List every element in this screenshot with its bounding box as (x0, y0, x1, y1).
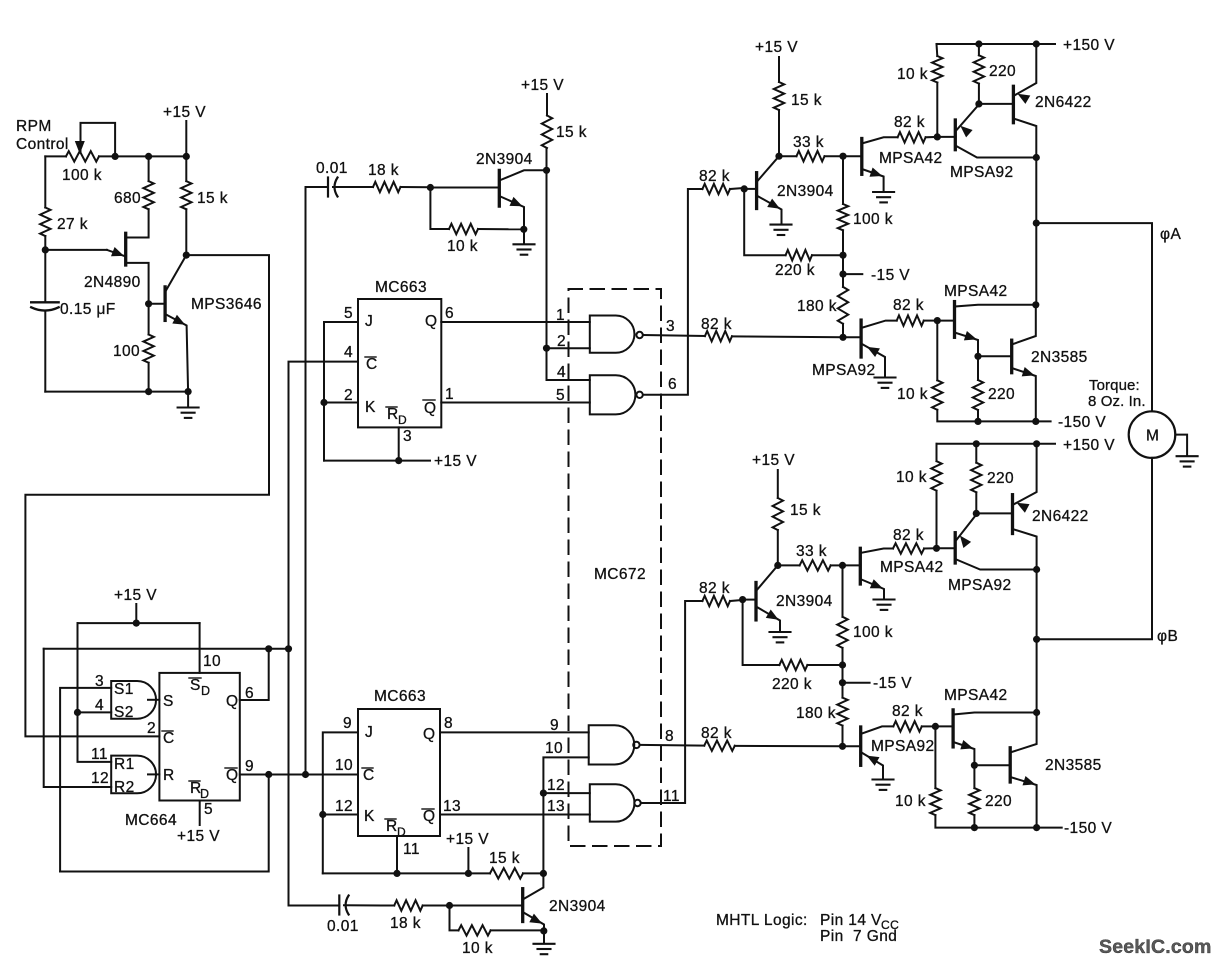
label Torque: 8 Oz. In. (1088, 377, 1146, 410)
wire 220 top (phase A high) (978, 44, 980, 55)
power -15 V (phase A) (871, 267, 910, 284)
label 2N3585 (phase B) (1045, 757, 1102, 774)
svg-text:82 k: 82 k (701, 725, 732, 742)
node dot 2N3904#1 collector (543, 167, 550, 174)
svg-text:K: K (365, 399, 376, 416)
wire 82k to MPSA42 base (phase B) (922, 725, 936, 727)
wire 82k to 2N3904 base (phase A) (730, 188, 744, 189)
wire 10k bottom to -150V rail (phase A) (937, 410, 1050, 422)
svg-text:+15 V: +15 V (521, 77, 564, 94)
svg-text:13: 13 (443, 798, 461, 815)
svg-text:12: 12 (547, 777, 565, 794)
wire 100k top (phase B) (842, 565, 844, 616)
svg-text:D: D (201, 684, 210, 698)
svg-text:-15 V: -15 V (871, 267, 910, 284)
pin 4 label (95, 697, 104, 714)
wire base node to bar (430, 187, 498, 189)
label 2N3585 (phase A) (1031, 349, 1088, 366)
svg-text:10 k: 10 k (447, 238, 478, 255)
svg-text:3: 3 (95, 673, 104, 690)
node dot 220k/100k (phase A) (839, 252, 846, 259)
svg-text:15 k: 15 k (489, 850, 520, 867)
ground (top pulse shaper) (514, 229, 535, 255)
wire -15V tap (phase A) (843, 255, 862, 274)
wire motor to ground (1175, 435, 1187, 456)
node dot MPS3646 collector (183, 252, 190, 259)
label 2N3904 (top) (476, 151, 533, 168)
gate G2 NAND (MC672 pins 4,5 -> 6) (590, 375, 643, 414)
svg-text:2N3904: 2N3904 (476, 151, 533, 168)
label phi-A (1160, 226, 1181, 243)
resistor 220 k (phase A) (786, 250, 812, 260)
pin 1 label (G1) (556, 307, 565, 324)
wire +15V down to S2 and R1 inputs (78, 623, 112, 762)
label J (upper) (365, 313, 373, 330)
svg-text:82 k: 82 k (893, 297, 924, 314)
wire 220 bottom (phase A high) (978, 84, 980, 104)
svg-text:+15 V: +15 V (752, 452, 795, 469)
svg-text:12: 12 (91, 770, 109, 787)
svg-text:MC663: MC663 (374, 688, 426, 705)
svg-text:100 k: 100 k (853, 211, 893, 228)
wire R-bar-D pin3 stub (upper) (398, 427, 400, 460)
resistor 15 k (lower) (490, 868, 523, 878)
wire 100k bottom (phase A) (842, 230, 844, 255)
svg-text:10: 10 (203, 653, 221, 670)
IC U3 MC664 flip-flop box (159, 673, 239, 801)
node dot J-K tie (lower) (319, 811, 326, 818)
svg-text:82 k: 82 k (701, 316, 732, 333)
ground (oscillator) (178, 392, 199, 418)
svg-text:33 k: 33 k (793, 134, 824, 151)
wire 10k bottom to -150V rail (phase B) (935, 815, 1061, 828)
svg-text:220: 220 (989, 63, 1016, 80)
wire oscillator bottom rail (45, 391, 188, 393)
resistor 680 (143, 181, 153, 209)
pin 11 label (91, 746, 108, 763)
resistor 82 k (phase B interstage) (893, 721, 922, 731)
node dot net D cap riser (302, 771, 309, 778)
label 100 (113, 343, 140, 360)
label 220 (phase B low) (985, 793, 1012, 810)
pin 5 / R-bar-D stub (MC664) (200, 801, 213, 826)
wire 10k to emitter node (bottom) (491, 929, 544, 931)
wire MC663#1 Q pin6 to NAND1 input1 (441, 321, 590, 323)
label 2N3904 (phase A) (777, 183, 834, 200)
node dot 680 top (145, 153, 152, 160)
label 100 k (62, 167, 102, 184)
wire 680 bottom to 2N4890 base-2 (126, 209, 149, 237)
svg-text:MPSA42: MPSA42 (879, 150, 943, 167)
wire base node to 100 (148, 304, 150, 335)
label 10 k (top) (447, 238, 478, 255)
wire net D feedback loop to S1 (60, 775, 269, 872)
watermark SeekIC.com (1099, 936, 1212, 958)
svg-text:Q: Q (424, 400, 436, 417)
svg-text:18 k: 18 k (390, 915, 421, 932)
svg-text:SeekIC.com: SeekIC.com (1099, 936, 1212, 958)
node dot J-K tie (upper) (320, 399, 327, 406)
node dot +15V tap (lower) (465, 870, 472, 877)
svg-text:18 k: 18 k (368, 162, 399, 179)
wire G4 output riser (641, 601, 703, 803)
svg-text:10: 10 (545, 740, 563, 757)
svg-text:5: 5 (204, 801, 213, 818)
power +15 V (MC664 R-bar-D) (177, 828, 220, 845)
resistor 33 k (phase B) (800, 560, 831, 570)
svg-text:+15 V: +15 V (755, 39, 798, 56)
wire MPSA42 emitter to 2N3585 base (phase B) (974, 764, 1010, 766)
wire +15V to S-bar-D pin 10 (199, 623, 201, 673)
node dot 220/-150V (phase A) (974, 418, 981, 425)
svg-text:82 k: 82 k (699, 168, 730, 185)
wire +15V rail (lower MC663) (323, 872, 490, 874)
svg-text:100 k: 100 k (853, 624, 893, 641)
label C-bar (MC664) (162, 730, 175, 747)
node dot pot right terminal (112, 153, 119, 160)
pin 6 label (245, 685, 254, 702)
svg-text:φB: φB (1157, 628, 1178, 645)
node dot output/MPSA42 collector (phase B) (1033, 709, 1040, 716)
wire 82k to MPSA92 base (phase B) (735, 745, 842, 747)
wire MC664 Q-bar pin9 to MC663#2 C-bar (net D) (240, 774, 358, 776)
svg-text:5: 5 (556, 387, 565, 404)
power +15 V (phase A) (755, 39, 798, 82)
node dot 33k node (phase B) (774, 562, 781, 569)
svg-text:2N3585: 2N3585 (1045, 757, 1102, 774)
pin 10 label (203, 653, 221, 670)
svg-text:D: D (200, 787, 209, 801)
svg-text:-15 V: -15 V (873, 675, 912, 692)
node dot 100k top (phase A) (839, 153, 846, 160)
wire J pin5 tie (upper) (324, 322, 358, 461)
transistor Q15 MPSA92 (phase B high) (937, 515, 1037, 570)
svg-text:11: 11 (91, 746, 108, 763)
wire oscillator output to MC664 C-bar input (net A) (25, 255, 269, 736)
svg-text:+15 V: +15 V (446, 831, 489, 848)
svg-text:4: 4 (557, 364, 566, 381)
svg-text:MC664: MC664 (125, 812, 177, 829)
ground (MPSA92 phase A) (875, 378, 896, 388)
transistor Q7 MPSA42 (phase A low) (937, 302, 1036, 357)
transistor Q9 MPSA92 (phase A high) (937, 105, 1036, 158)
label MPSA92 (phase B low) (871, 738, 935, 755)
wire +15V rail (upper MC663) (324, 460, 430, 462)
wire 15k to node (phase A) (778, 110, 780, 156)
node dot 2N3585 emitter/-150V (phase B) (1033, 824, 1040, 831)
pin 13 label (G4) (547, 798, 565, 815)
IC U4 MC663 flip-flop box (lower) (358, 709, 440, 836)
svg-text:6: 6 (668, 376, 677, 393)
pin 9 label (G3) (550, 717, 559, 734)
ground (MPSA92 phase B) (873, 780, 894, 790)
node dot net C to C-bar riser (285, 645, 292, 652)
resistor 82 k (G4 out) (702, 596, 730, 606)
svg-text:+15 V: +15 V (163, 104, 206, 121)
node dot net C corner (265, 645, 272, 652)
wire 15k to collector node (546, 148, 548, 170)
svg-text:2N4890: 2N4890 (84, 274, 141, 291)
node dot 33k node (phase A) (775, 153, 782, 160)
svg-text:K: K (364, 808, 375, 825)
node dot MPSA92 emitter node (phase A) (975, 100, 982, 107)
pin 8 label (G3 out) (665, 728, 674, 745)
transistor Q4 2N3904 (bottom pulse shaper) (523, 873, 544, 930)
wire 220k to node (phase B) (807, 664, 842, 666)
wire base to 220k (phase A) (744, 189, 785, 255)
resistor 18 k (bottom) (394, 900, 423, 910)
wire collector node to NAND inputs 10 and 12 (543, 757, 588, 873)
label MC663 (lower) (374, 688, 426, 705)
svg-text:-150 V: -150 V (1064, 820, 1112, 837)
svg-text:220: 220 (985, 793, 1012, 810)
ground (motor) (1177, 456, 1198, 466)
label 15 k (phase A) (791, 92, 822, 109)
label 10 k (phase B low) (895, 793, 926, 810)
node dot phase A output tap (1033, 220, 1040, 227)
node dot 100k top (phase B) (839, 562, 846, 569)
power +15 V (top middle) (521, 77, 564, 116)
transistor Q11 2N3904 (phase B) (743, 565, 780, 631)
svg-text:M: M (1146, 428, 1159, 445)
svg-text:Q: Q (226, 767, 238, 784)
power +15 V (phase B) (752, 452, 795, 498)
svg-text:MC663: MC663 (375, 279, 427, 296)
svg-text:220: 220 (987, 470, 1014, 487)
label K (lower) (364, 808, 375, 825)
wire MC663#2 Q-bar pin13 to NAND4 input13 (440, 814, 590, 816)
svg-text:+15 V: +15 V (434, 453, 477, 470)
svg-text:RPM: RPM (16, 118, 52, 135)
resistor 10 k (phase A high) (932, 56, 942, 83)
node dot 2N3904#2 collector (540, 870, 547, 877)
wire 33k left (phase A) (779, 155, 797, 157)
node dot MPSA42 base (phase B low) (932, 723, 939, 730)
node dot output/MPSA42 collector (phase A) (1032, 301, 1039, 308)
power -150 V (phase B) (1064, 820, 1112, 837)
label 220 k (phase A) (775, 262, 815, 279)
resistor 10 k (top) (449, 224, 478, 234)
wire +15V rail MC664 (78, 622, 200, 624)
svg-text:Q: Q (423, 808, 435, 825)
wire R-bar-D pin11 stub (lower) (396, 836, 398, 873)
pin 4 label (G2) (557, 364, 566, 381)
label 0.01 (top) (316, 160, 348, 177)
svg-text:1: 1 (445, 386, 454, 403)
svg-text:C: C (363, 767, 375, 784)
label 82 k (phase A mid) (894, 114, 925, 131)
svg-text:11: 11 (403, 841, 420, 858)
pin 1 label (upper) (445, 386, 454, 403)
label 33 k (phase B) (796, 543, 827, 560)
svg-text:2N3904: 2N3904 (776, 593, 833, 610)
label 18 k (top) (368, 162, 399, 179)
wire 82k to MPSA92 base (phase A high) (926, 136, 938, 138)
pin 4 label (upper) (344, 344, 353, 361)
node dot phase B output tap (1033, 636, 1040, 643)
wire 220 bottom (phase A low) (977, 410, 979, 421)
wire output column (phase A) (1035, 158, 1037, 305)
wire 220 top (phase A low) (977, 356, 979, 380)
label 10 k (phase B high) (896, 469, 927, 486)
wire MC663#1 Q-bar pin1 to NAND2 input5 (441, 402, 590, 404)
pin 12 label (91, 770, 109, 787)
node dot net D loop (265, 771, 272, 778)
label 2N6422 (phase A) (1035, 94, 1092, 111)
label S (MC664) (163, 693, 174, 710)
pin 6 label (G2 out) (668, 376, 677, 393)
svg-text:5: 5 (344, 305, 353, 322)
wire phase B output to motor (1037, 458, 1152, 639)
wire left rail down to 27k (44, 156, 46, 207)
node dot 220/-150V (phase B) (971, 824, 978, 831)
gate G3 NAND (MC672 pins 9,10 -> 8) (589, 725, 640, 764)
power +150 V (phase B) (1063, 437, 1115, 454)
wire J pin9 tie (lower) (323, 732, 358, 873)
capacitor C1 0.01 (top coupling) (328, 178, 373, 197)
rail +150 V (phase B) (937, 443, 1056, 445)
node dot 27k/cap/emitter (42, 246, 49, 253)
label 680 (114, 190, 141, 207)
svg-text:D: D (398, 413, 407, 427)
node dot bottom rail / emitter (185, 388, 192, 395)
node dot bottom rail / 100 (145, 388, 152, 395)
node dot 2N3904#2 emitter/10k (540, 927, 547, 934)
label 82 k (phase B interstage) (892, 703, 923, 720)
label MPSA92 (phase B high) (948, 577, 1012, 594)
label MC672 (594, 566, 646, 583)
pin 2 label (upper) (344, 387, 353, 404)
wire 180k bottom (phase A) (842, 324, 844, 338)
resistor 15 k (phase B) (773, 498, 783, 530)
label R-bar-D (upper) (386, 406, 407, 427)
svg-text:15 k: 15 k (790, 502, 821, 519)
svg-text:MPSA42: MPSA42 (944, 687, 1008, 704)
svg-text:82 k: 82 k (893, 527, 924, 544)
label 82 k (G3 out) (701, 725, 732, 742)
resistor 18 k (top) (373, 182, 401, 192)
svg-text:220: 220 (988, 386, 1015, 403)
label 0.15 uF (60, 301, 116, 318)
label Q-bar (MC664) (225, 767, 238, 784)
node dot 220k/100k (phase B) (839, 661, 846, 668)
node dot +15V / 15k top (183, 153, 190, 160)
svg-text:3: 3 (403, 428, 412, 445)
svg-text:+150 V: +150 V (1063, 37, 1115, 54)
label Q-bar (upper) (423, 400, 436, 417)
transistor Q2 MPS3646 (149, 255, 189, 392)
power +150 V (phase A) (1063, 37, 1115, 54)
svg-text:0.15 μF: 0.15 μF (60, 301, 116, 318)
label 82 k (G2 out) (699, 168, 730, 185)
node dot MPSA92 emitter node (phase B) (973, 510, 980, 517)
power +15 V (upper MC663) (434, 453, 477, 470)
label 220 (phase A low) (988, 386, 1015, 403)
label 15 k (oscillator) (197, 190, 228, 207)
resistor 220 (phase B high) (971, 463, 981, 493)
svg-text:MPSA42: MPSA42 (880, 559, 944, 576)
pin 12 label (lower) (335, 798, 353, 815)
svg-text:Control: Control (16, 136, 69, 153)
node dot 220 top (phase B high) (973, 440, 980, 447)
svg-text:2: 2 (557, 333, 566, 350)
node dot 2N3904 base (phase B) (739, 596, 746, 603)
resistor 82 k (G3 out) (704, 741, 735, 751)
pin 12 label (G4) (547, 777, 565, 794)
ground (2N3904 phase A) (771, 225, 792, 235)
node dot NAND input 2 tap (543, 345, 550, 352)
pin 13 label (lower) (443, 798, 461, 815)
wire 100k top (phase A) (842, 156, 844, 204)
gate R1/R2 AND (MC664 reset gate) (111, 756, 159, 796)
resistor 10 k (phase B high) (931, 461, 941, 491)
svg-text:Pin 7 Gnd: Pin 7 Gnd (820, 928, 897, 945)
svg-text:3: 3 (666, 318, 675, 335)
label R-bar-D (lower) (385, 818, 406, 839)
label 82 k (phase B mid) (893, 527, 924, 544)
svg-text:6: 6 (445, 305, 454, 322)
pin 2 label (G1) (557, 333, 566, 350)
wire 220 bottom (phase B high) (975, 492, 977, 513)
IC U2 MC672 dashed outline (569, 289, 662, 846)
svg-text:-150 V: -150 V (1058, 414, 1106, 431)
svg-text:10 k: 10 k (462, 940, 493, 957)
svg-text:33 k: 33 k (796, 543, 827, 560)
transistor Q13 MPSA42 (phase B low) (935, 710, 1036, 765)
wire 33k right (phase B) (831, 564, 843, 566)
node dot 2N3904#2 base (446, 902, 453, 909)
wire base to 220k (phase B) (743, 600, 780, 665)
wire 18k to base node (401, 186, 431, 188)
wire 82k to MPSA92 base (phase B high) (924, 547, 936, 549)
label MPS3646 (191, 296, 262, 313)
label 2N3904 (phase B) (776, 593, 833, 610)
label 82 k (phase A interstage) (893, 297, 924, 314)
pin 9 label (245, 758, 254, 775)
svg-text:15 k: 15 k (791, 92, 822, 109)
node dot output node top (phase B) (1033, 566, 1040, 573)
resistor 82 k (G2 out) (702, 184, 730, 194)
svg-text:S1: S1 (114, 681, 134, 698)
motor M (1129, 411, 1176, 458)
label C-bar (lower) (362, 767, 375, 784)
label 180 k (phase A) (797, 298, 837, 315)
pin 6 label (upper) (445, 305, 454, 322)
wire 180k bottom (phase B) (842, 726, 844, 747)
label 10 k (bottom) (462, 940, 493, 957)
label 220 (phase B high) (987, 470, 1014, 487)
transistor Q17 MPSA42 (phase A mid) (843, 137, 898, 191)
svg-text:9: 9 (245, 758, 254, 775)
wire 15k to collector node (lower) (523, 872, 543, 874)
label MPSA42 (phase B low) (944, 687, 1008, 704)
wire 10k top stub (phase A high) (936, 44, 939, 56)
resistor 82 k (phase A mid) (898, 132, 926, 142)
node dot R-bar-D +15V (lower) (393, 870, 400, 877)
transistor Q5 2N3904 (phase A) (744, 156, 781, 223)
transistor Q14 2N3585 (phase B) (1010, 713, 1036, 828)
resistor 220 (phase B low) (969, 788, 979, 815)
svg-text:2: 2 (147, 720, 156, 737)
label Q (MC664) (226, 693, 238, 710)
label MPSA92 (phase A low) (812, 362, 876, 379)
resistor 27 k (40, 208, 50, 237)
svg-text:MPSA42: MPSA42 (944, 283, 1008, 300)
pin 11 label (G4 out) (663, 788, 680, 805)
IC U1 MC663 flip-flop box (upper) (358, 299, 441, 427)
label MPSA42 (phase A low) (944, 283, 1008, 300)
label phi-B (1157, 628, 1178, 645)
